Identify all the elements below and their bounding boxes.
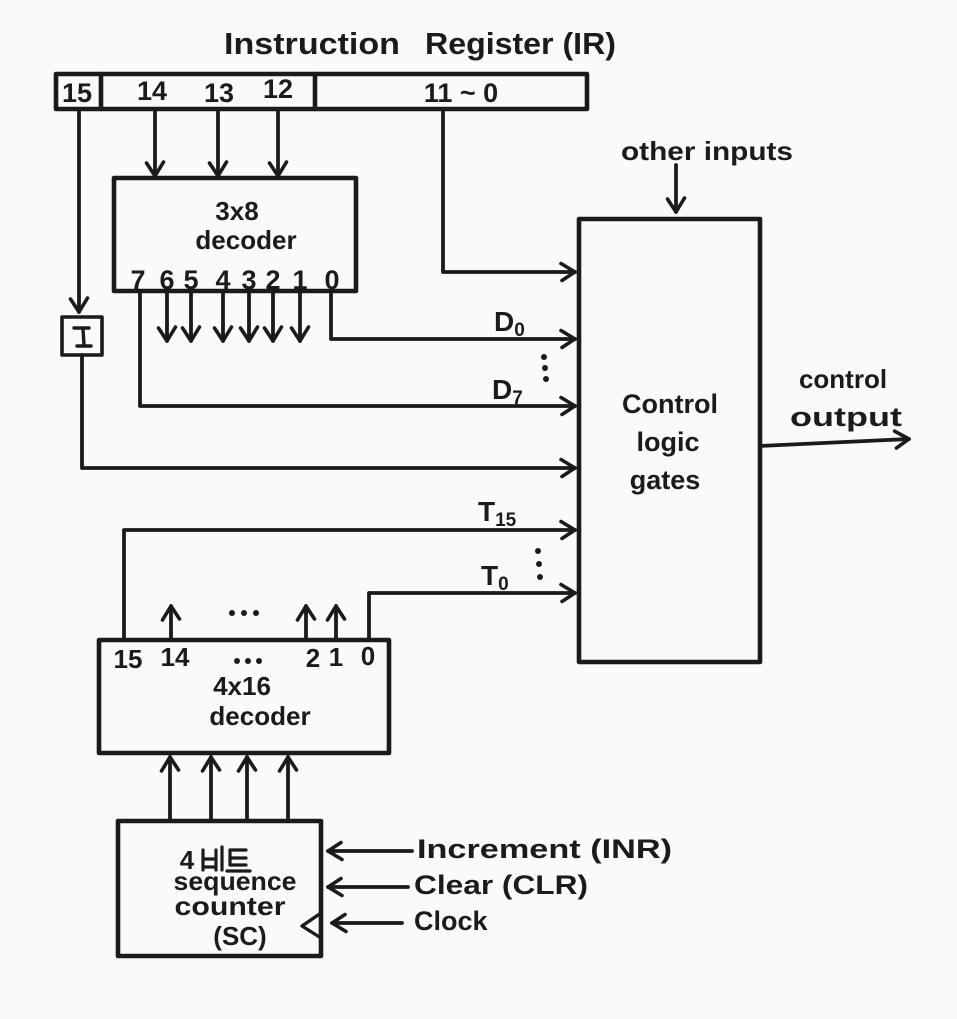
svg-text:15: 15: [114, 644, 143, 674]
svg-text:12: 12: [263, 74, 293, 104]
svg-text:6: 6: [159, 265, 174, 295]
svg-text:decoder: decoder: [195, 225, 296, 255]
svg-text:0: 0: [324, 265, 339, 295]
svg-text:3: 3: [241, 265, 256, 295]
svg-text:5: 5: [183, 265, 198, 295]
svg-text:logic: logic: [636, 427, 699, 457]
svg-text:(SC): (SC): [213, 921, 266, 951]
svg-text:7: 7: [130, 265, 145, 295]
svg-text:decoder: decoder: [209, 701, 310, 731]
svg-text:11 ~ 0: 11 ~ 0: [424, 78, 498, 108]
svg-text:1: 1: [329, 642, 343, 672]
svg-text:gates: gates: [630, 465, 701, 495]
svg-text:15: 15: [62, 78, 92, 108]
svg-text:output: output: [790, 402, 902, 432]
svg-text:14: 14: [161, 642, 190, 672]
svg-text:Clear (CLR): Clear (CLR): [414, 870, 588, 900]
svg-text:Control: Control: [622, 389, 718, 419]
svg-text:3x8: 3x8: [215, 196, 258, 226]
svg-text:1: 1: [292, 265, 307, 295]
svg-text:14: 14: [137, 76, 167, 106]
svg-text:Increment (INR): Increment (INR): [417, 834, 672, 864]
svg-text:Register (IR): Register (IR): [425, 26, 616, 61]
svg-text:Clock: Clock: [414, 906, 489, 936]
svg-text:4x16: 4x16: [213, 671, 271, 701]
svg-text:2: 2: [306, 643, 320, 673]
svg-text:control: control: [799, 364, 887, 394]
svg-text:other inputs: other inputs: [621, 136, 793, 166]
svg-text:13: 13: [204, 78, 234, 108]
svg-text:0: 0: [361, 641, 375, 671]
svg-text:counter: counter: [175, 891, 286, 921]
svg-text:2: 2: [265, 265, 280, 295]
svg-text:4: 4: [215, 265, 230, 295]
svg-text:Instruction: Instruction: [224, 26, 400, 61]
